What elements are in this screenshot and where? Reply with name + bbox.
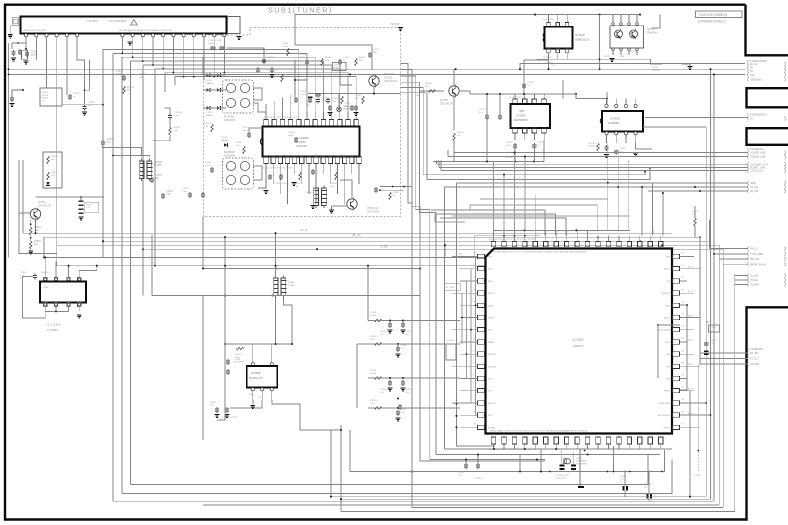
- svg-text:LNB: LNB: [44, 287, 49, 289]
- junction dots qfp feeds: [513, 152, 515, 154]
- wire bus row a: [23, 232, 672, 234]
- wire qfp bottom collection b: [436, 454, 660, 456]
- connector row PYU-2: [747, 247, 750, 251]
- wire dashed crossing b: [380, 189, 404, 191]
- svg-text:9V: 9V: [750, 67, 753, 70]
- svg-text:0.01u: 0.01u: [267, 60, 273, 62]
- wire left cluster: [12, 42, 26, 44]
- svg-text:CL_IN1: CL_IN1: [750, 275, 759, 278]
- svg-text:(16p) (16p): (16p) (16p): [556, 478, 567, 480]
- ground q7504: [329, 210, 334, 211]
- svg-text:TXDE: TXDE: [488, 318, 494, 320]
- wire rail 161 extension: [433, 161, 454, 163]
- boxed label R7576L: [709, 325, 720, 332]
- wire left verticals top: [8, 43, 10, 257]
- wire rows Y C to left: [454, 152, 748, 154]
- IC7691 body: [40, 281, 86, 302]
- capacitor C7584: [226, 360, 230, 362]
- svg-text:CL/R_out-G: CL/R_out-G: [750, 170, 763, 173]
- svg-text:AV_IN1: AV_IN1: [750, 190, 759, 193]
- wire row avin: [648, 190, 748, 192]
- svg-text:G4.5M: G4.5M: [154, 165, 161, 167]
- wire q7508 emitter2: [453, 141, 455, 162]
- ground sda: [688, 66, 693, 67]
- svg-text:SECL/NICAM: SECL/NICAM: [658, 329, 670, 332]
- Q7607 pins top: [612, 23, 615, 26]
- wire cluster link: [62, 104, 103, 106]
- wire bottom loop 1: [131, 455, 649, 485]
- svg-text:0.01u: 0.01u: [182, 191, 188, 193]
- svg-text:IC7585: IC7585: [251, 371, 261, 375]
- svg-text:TO SUB2(MON): TO SUB2(MON): [747, 113, 767, 117]
- wire dashed crossing a: [380, 186, 412, 188]
- wire vert x203: [202, 296, 204, 441]
- wire ic7602 loop: [562, 80, 564, 98]
- svg-text:(5-1): (5-1): [551, 65, 556, 67]
- wire ic7585 top pins: [252, 344, 254, 363]
- IC7605 bottom pins: [513, 128, 518, 133]
- wire cluster top rail: [36, 196, 105, 198]
- ground row2: [396, 354, 401, 355]
- wire ic7504 to dets: [258, 170, 266, 188]
- IC7585 top pins: [251, 363, 254, 366]
- junction dot ic7585 out: [340, 429, 342, 431]
- wire qfp top feed verticals: [493, 162, 495, 231]
- svg-text:(1st_IF): (1st_IF): [300, 229, 308, 232]
- svg-text:AG IF-A 9V 5V BT: AG IF-A 9V 5V BT AGC: [24, 29, 47, 32]
- ground row1: [388, 330, 393, 331]
- svg-text:C7513: C7513: [242, 127, 249, 129]
- wire lower vertical row187: [445, 186, 748, 188]
- wire q7508 collector: [453, 69, 455, 86]
- capacitor C7619: [161, 194, 165, 196]
- svg-text:R7572: R7572: [692, 211, 699, 213]
- capacitor C7519: [316, 98, 320, 100]
- ground rf a: [270, 74, 275, 75]
- wire left bus risers to rows: [367, 266, 369, 321]
- wire row3: [368, 377, 460, 379]
- resistor R7527 rf: [243, 146, 246, 153]
- svg-text:AT-612: AT-612: [688, 412, 694, 415]
- svg-text:L7505: L7505: [300, 91, 307, 93]
- svg-text:(5) 13 12: (5) 13 12: [543, 57, 552, 59]
- svg-text:VDET: VDET: [665, 305, 671, 307]
- capacitor C7576: [513, 144, 517, 146]
- svg-text:SCL-13: SCL-13: [630, 51, 638, 53]
- ground ic7585 left: [215, 414, 220, 415]
- diode D7504: [46, 182, 50, 185]
- ground row4: [396, 418, 401, 419]
- dashed box tuner IF section: [204, 28, 401, 217]
- wire riser 706: [705, 127, 707, 497]
- svg-text:R7618: R7618: [174, 127, 181, 129]
- capacitor C7582: [614, 150, 618, 152]
- svg-text:0.01u: 0.01u: [174, 115, 180, 117]
- capacitor C7602: [11, 51, 15, 53]
- svg-text:C7619: C7619: [166, 191, 173, 193]
- wire row y117 to ic7602: [645, 117, 748, 119]
- junction dots rail 471: [549, 471, 551, 473]
- ground left cluster a: [11, 58, 16, 59]
- svg-text:Q7505: Q7505: [384, 76, 392, 80]
- svg-text:C7605: C7605: [73, 93, 80, 95]
- svg-text:AUDIO: AUDIO: [664, 268, 671, 271]
- connector row 5V: [747, 69, 750, 73]
- junction dots feed crossings: [607, 182, 609, 184]
- black mark below qfp: [578, 486, 584, 488]
- QFP top pins: [491, 242, 495, 247]
- svg-text:L7503: L7503: [282, 43, 289, 45]
- wire x7585 rail: [203, 268, 420, 270]
- Q7607 box: [610, 26, 644, 48]
- wire ic7605 rail: [486, 94, 488, 114]
- svg-text:(1u): (1u): [405, 334, 409, 336]
- capacitor C7547: [571, 465, 576, 467]
- connector row AV_IN1: [747, 189, 750, 193]
- transistor Q7501: [30, 209, 40, 219]
- wire Q7501 emitter down: [30, 219, 32, 227]
- connector row CL_IN1: [747, 273, 750, 277]
- wire q7508 emitter: [453, 96, 455, 130]
- capacitor C7587: [215, 408, 219, 410]
- svg-text:17TM80U: 17TM80U: [47, 329, 58, 332]
- wire bundle row a: [401, 87, 646, 174]
- wire rf links: [263, 48, 265, 57]
- wire bus row b: [44, 236, 700, 238]
- svg-text:D7503: D7503: [206, 112, 213, 114]
- svg-text:0.01u: 0.01u: [710, 343, 716, 345]
- svg-text:BUS7XX: BUS7XX: [391, 24, 401, 26]
- capacitor C7611: [101, 141, 105, 143]
- wire c7614: [165, 108, 170, 113]
- ground c7604: [82, 112, 87, 113]
- wire cf7502 feed a: [103, 148, 142, 157]
- wire lower vertical row183: [457, 182, 748, 184]
- wire bus row d: [57, 245, 720, 505]
- svg-text:R7514: R7514: [355, 95, 362, 97]
- resistor R7509: [211, 124, 214, 131]
- transistor Q7504: [347, 199, 357, 209]
- svg-text:NC GND AS BSW MB: NC GND AS BSW MB ADR SCL/SDA AS CP1B1(P1…: [119, 29, 172, 32]
- svg-text:D7505: D7505: [221, 137, 228, 139]
- wire tuner pin stubs tail: [203, 37, 205, 81]
- capacitor C7509: [338, 60, 342, 62]
- svg-text:TA8776N: TA8776N: [296, 144, 307, 148]
- svg-text:0.01u: 0.01u: [288, 135, 294, 137]
- boxed label L7504: [333, 63, 347, 71]
- wire qfp top riser group2: [431, 210, 545, 236]
- svg-text:AT-612: AT-612: [688, 290, 694, 293]
- svg-text:TO SUB6(P#): TO SUB6(P#): [747, 347, 763, 351]
- capacitor C7618: [150, 178, 154, 180]
- resistor R7523 rf: [341, 96, 344, 103]
- capacitor C7691: [33, 274, 37, 276]
- capacitor C7531 rf: [316, 93, 318, 97]
- svg-text:FL7501: FL7501: [224, 115, 235, 119]
- svg-text:C7587: C7587: [210, 402, 217, 404]
- capacitor C7614 mid: [168, 114, 172, 116]
- wire staircase horizontals: [103, 48, 299, 50]
- capacitor C7621: [201, 193, 205, 195]
- svg-text:OUN7VE730ME01: OUN7VE730ME01: [699, 13, 728, 17]
- svg-text:C7588 2SC27RU: C7588 2SC27RU: [222, 417, 238, 419]
- svg-text:#4 (3) #2 (4) 8 (1) 7: #4 (3) #2 (4) 8 (1) 7: [509, 97, 527, 99]
- svg-text:DDL-38MHz: DDL-38MHz: [576, 463, 587, 465]
- inductor L7601 box: [22, 50, 28, 59]
- svg-text:1 2 3 4 5 6 7 8 9 10: 1 2 3 4 5 6 7 8 9 10 11 12 13 14: [263, 168, 293, 170]
- svg-text:C7606: C7606: [88, 102, 95, 104]
- wire q7508 to ic7605: [459, 91, 576, 94]
- wire clin rows left: [734, 274, 736, 365]
- wire ic7605 gnd rail: [486, 120, 488, 161]
- svg-text:SEL1: SEL1: [488, 281, 493, 283]
- svg-text:0 (L): 0 (L): [370, 403, 375, 405]
- ground ic7602 b: [633, 153, 638, 154]
- svg-text:AT_GND: AT_GND: [446, 286, 455, 289]
- capacitor C7533 rf: [354, 106, 358, 108]
- svg-text:C7576: C7576: [710, 340, 717, 342]
- wire c7544 vert: [624, 472, 626, 487]
- resistor R7504: [47, 156, 50, 163]
- capacitor C7513: [247, 133, 251, 135]
- svg-text:FL7502: FL7502: [224, 150, 235, 154]
- junction dot c7568: [397, 397, 399, 399]
- wire ic7605 out: [543, 140, 545, 162]
- svg-text:P7601: P7601: [652, 67, 659, 69]
- capacitor C7516: [350, 106, 354, 108]
- wire vert 690 lower: [689, 391, 691, 497]
- capacitor C7601: [18, 50, 22, 52]
- capacitor C7568: [398, 405, 402, 407]
- svg-text:X7585: X7585: [288, 282, 295, 284]
- svg-text:R7612: R7612: [127, 87, 134, 89]
- capacitor C7570 right: [704, 342, 708, 344]
- svg-text:2.2uH: 2.2uH: [282, 46, 288, 48]
- ground ic7602 a: [604, 154, 609, 155]
- svg-text:SUBOUT: SUBOUT: [488, 354, 497, 356]
- svg-text:SDME1617G: SDME1617G: [575, 39, 590, 42]
- svg-text:EXTAL/DENT: EXTAL/DENT: [658, 402, 670, 405]
- junction dot buffer rail: [373, 93, 375, 95]
- junction dot x524: [523, 93, 525, 95]
- capacitor C7558 row2: [396, 347, 400, 349]
- svg-text:(1) 4-12: (1) 4-12: [546, 62, 554, 64]
- wire main bus B: [8, 73, 745, 75]
- svg-text:CF7501: CF7501: [305, 192, 314, 194]
- wire ic7504 left: [249, 128, 263, 132]
- svg-text:IC7608: IC7608: [575, 33, 585, 37]
- wire r7618: [169, 120, 171, 128]
- IC7602 left notch: [600, 118, 602, 124]
- svg-text:0.5p: 0.5p: [166, 194, 171, 196]
- QFP bottom pins: [491, 437, 495, 444]
- junction dot pin6 branch: [84, 89, 86, 91]
- svg-text:AT-612: AT-612: [688, 363, 694, 366]
- capacitor C7588: [225, 408, 229, 410]
- junction dots riser 225: [224, 236, 226, 238]
- resistor network box RX7501: [43, 152, 62, 188]
- IC7608 body: [545, 27, 573, 49]
- IC7608 left notch: [543, 33, 544, 42]
- svg-text:0.47uH: 0.47uH: [300, 94, 307, 96]
- crystal CF7502: [139, 161, 144, 179]
- connector row SCART_LINK: [747, 165, 750, 169]
- svg-text:(L): (L): [710, 330, 713, 332]
- connector row 33V: [747, 73, 750, 77]
- resistor R7612: [123, 86, 126, 93]
- svg-text:AT-612: AT-612: [688, 314, 694, 317]
- svg-text:C7534: C7534: [288, 132, 295, 134]
- svg-text:LM1881M: LM1881M: [608, 122, 619, 125]
- capacitor C7609 left edge: [10, 97, 14, 99]
- svg-text:IC7507: IC7507: [573, 338, 584, 342]
- test point CP7501: [337, 107, 342, 112]
- wire c7541 stubs: [465, 460, 467, 463]
- wire qfp top collection: [494, 230, 631, 235]
- svg-text:(4) 8 (2) 1: (4) 8 (2) 1: [41, 272, 51, 274]
- capacitor C7573: [485, 115, 489, 117]
- wire q7504 emitter left: [332, 206, 347, 210]
- wire y295 row: [152, 295, 420, 297]
- wire qfp left inner verticals: [475, 257, 477, 416]
- wire bottom loop 4: [341, 498, 711, 500]
- svg-text:C7517: C7517: [373, 49, 380, 51]
- svg-text:GND(SW): GND(SW): [750, 78, 761, 81]
- svg-text:SDTO-1: SDTO-1: [488, 293, 495, 295]
- svg-text:(OP#8HE730ALL): (OP#8HE730ALL): [698, 20, 725, 24]
- svg-text:L7508: L7508: [370, 312, 377, 314]
- wire bus row g: [57, 265, 485, 267]
- wire ic7602 vert right: [710, 69, 712, 499]
- IC7504 left notch: [260, 138, 262, 145]
- svg-text:PA/PR_IN-NA: PA/PR_IN-NA: [750, 263, 766, 266]
- svg-text:R7526: R7526: [306, 102, 313, 104]
- wire ic7691 pin risers: [44, 257, 46, 277]
- svg-text:QXB4X3: QXB4X3: [573, 344, 584, 348]
- junction dots qfp top: [523, 229, 525, 231]
- wire right qfp branch: [680, 304, 687, 306]
- resistor R7505: [47, 172, 50, 179]
- tuner extension box: [228, 17, 241, 34]
- connector row GND(SW): [747, 77, 750, 81]
- IC7605 top pins: [513, 99, 518, 104]
- wire bottom loop 5: [113, 500, 714, 502]
- junction dots low vert: [154, 265, 156, 267]
- capacitor C7503 cluster: [211, 46, 213, 50]
- wire right of qfp verticals: [680, 305, 687, 390]
- capacitor C7515: [308, 98, 312, 100]
- resistor R7538: [428, 90, 435, 93]
- wire ic7504 top feeds: [265, 104, 267, 112]
- junction dots bus: [455, 68, 457, 70]
- svg-text:C-VPS RAMC MACOM VDD I-OUT C: C-VPS RAMC MACOM VDD I-OUT C-OUT ABUS AB…: [490, 251, 587, 254]
- svg-text:C7505: C7505: [267, 57, 274, 59]
- svg-text:SIF1: SIF1: [666, 366, 670, 368]
- svg-text:1-RST: 1-RST: [488, 305, 494, 307]
- wire bottom loop 6: [203, 504, 719, 506]
- IC7504 top pin boxes: [264, 120, 268, 127]
- svg-text:R7507: R7507: [359, 57, 366, 59]
- capacitor C7598: [522, 84, 526, 86]
- ground rf c: [354, 112, 359, 113]
- diode D7501: [207, 73, 210, 77]
- svg-text:VDD: VDD: [488, 269, 493, 271]
- svg-text:K3953MM: K3953MM: [224, 155, 235, 158]
- wire x7585 left riser: [217, 237, 225, 420]
- capacitor stack C7552: [79, 201, 84, 203]
- wire pin4 down: [56, 37, 58, 110]
- wire drop x599: [599, 15, 601, 70]
- svg-text:R7539: R7539: [457, 132, 464, 134]
- junction dots bottom: [524, 448, 526, 450]
- svg-text:PYU#_REC: PYU#_REC: [750, 253, 763, 256]
- svg-text:403-38MHz: 403-38MHz: [576, 461, 587, 463]
- svg-text:C7557: C7557: [405, 331, 412, 333]
- svg-text:R7519: R7519: [330, 183, 337, 185]
- wire c7691: [29, 276, 33, 278]
- wire c7545 vert: [648, 472, 650, 495]
- svg-text:0 (L): 0 (L): [370, 339, 375, 341]
- resistor R7560 row4: [374, 407, 381, 410]
- svg-text:L7504: L7504: [334, 65, 341, 67]
- junction dots bundle rows: [644, 171, 646, 173]
- capacitor C7523: [279, 175, 283, 177]
- capacitor C7612: [122, 76, 126, 78]
- svg-text:(C): (C): [259, 397, 262, 399]
- wire bus row f: [44, 256, 485, 258]
- wire bottom loop 3: [331, 496, 706, 498]
- junction dot pin area: [17, 42, 19, 44]
- wire det out: [340, 180, 352, 199]
- capacitor C7508: [305, 60, 309, 62]
- ground row3: [388, 388, 393, 389]
- capacitor C7534 rf: [294, 138, 298, 140]
- capacitor C7561 row3: [401, 381, 405, 383]
- junction dots ic7602 right: [709, 68, 711, 70]
- svg-text:2.2uH: 2.2uH: [370, 315, 376, 317]
- wire base Q7508: [420, 90, 444, 92]
- svg-text:X7601: X7601: [576, 458, 583, 460]
- wire right vertical 698: [697, 364, 699, 452]
- wire buffer out: [373, 87, 375, 94]
- svg-text:K3953MM: K3953MM: [224, 119, 235, 122]
- wire ic7585 rail left: [202, 217, 204, 269]
- capacitor C7556 row1: [388, 323, 392, 325]
- boxed label AT-GND: [444, 283, 460, 290]
- cluster L7601 R7601: [40, 88, 62, 106]
- svg-text:C7542 (L): C7542 (L): [474, 478, 484, 480]
- svg-text:C-B7R: C-B7R: [694, 475, 701, 477]
- svg-text:C7546 C7547: C7546 C7547: [556, 475, 570, 477]
- resistor R7539: [453, 133, 456, 140]
- wire rf out rail: [308, 93, 401, 95]
- svg-text:IC7591: IC7591: [46, 323, 61, 327]
- diode D7505: [224, 143, 227, 147]
- svg-text:2SC2412R: 2SC2412R: [440, 102, 453, 106]
- svg-text:680k(5): 680k(5): [588, 146, 595, 148]
- svg-text:4.19M: 4.19M: [288, 285, 294, 287]
- QFP right pins: [673, 254, 680, 258]
- wire q7607 right out: [651, 59, 663, 64]
- connector row PW_ON: [747, 257, 750, 261]
- capacitor C7541: [464, 464, 468, 466]
- svg-text:R7601: R7601: [42, 98, 49, 100]
- wire bus row c: [103, 240, 711, 242]
- connector row CL_IN1: [747, 185, 750, 189]
- wire vert 613 down: [613, 446, 615, 472]
- wire bus bundle staircase: [401, 63, 412, 203]
- svg-text:AT-612: AT-612: [688, 266, 694, 269]
